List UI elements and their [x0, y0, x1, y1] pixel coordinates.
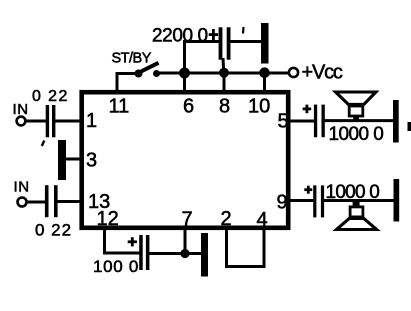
speaker LS1 box [349, 106, 363, 116]
wire ground to pin 3 [65, 158, 82, 161]
svg-text:3: 3 [86, 149, 97, 171]
wire Vcc rail [157, 72, 289, 75]
stray tick mark [242, 27, 245, 34]
capacitor C6 left plate [313, 185, 316, 217]
svg-text:6: 6 [183, 96, 194, 118]
wire C6 to speaker and ground [324, 199, 395, 202]
wire pin 8 stub [223, 73, 226, 92]
capacitor C2 right plate [52, 105, 55, 137]
terminal +Vcc [289, 68, 298, 77]
speaker LS1 cone [336, 92, 376, 104]
wire C4 to junction [149, 252, 201, 255]
svg-text:0 22: 0 22 [35, 221, 72, 240]
polarity plus of C5 [303, 105, 312, 114]
svg-text:4: 4 [257, 209, 268, 231]
wire C1 row left [183, 40, 219, 43]
stray apostrophe mark [42, 141, 45, 147]
ground bar bottom [201, 233, 208, 277]
svg-text:11: 11 [109, 96, 130, 118]
svg-text:100 0: 100 0 [93, 257, 139, 276]
terminal input upper [17, 117, 26, 126]
capacitor C4 left plate [139, 235, 143, 270]
speaker LS2 cone [337, 218, 377, 229]
capacitor C5 left plate [314, 105, 317, 138]
svg-text:2200 0: 2200 0 [152, 25, 208, 46]
speaker LS1 nub [353, 117, 359, 121]
svg-text:10: 10 [248, 96, 270, 118]
wire pin 11 stub [117, 74, 137, 91]
svg-text:9: 9 [277, 192, 288, 214]
capacitor C1 right plate [227, 27, 231, 59]
terminal input lower [18, 198, 27, 207]
ground bar right upper [393, 100, 399, 143]
ground bar right lower [394, 179, 400, 222]
svg-text:5: 5 [278, 110, 289, 132]
svg-text:12: 12 [97, 208, 119, 230]
capacitor C5 right plate [322, 105, 325, 138]
wire pin 12 elbow [105, 228, 141, 253]
capacitor C1 2200uF left plate [219, 27, 223, 59]
polarity plus of C4 [128, 237, 137, 246]
stray edge mark [408, 122, 411, 131]
op-amp IC U1 body [82, 92, 289, 228]
capacitor C3 right plate [54, 185, 58, 217]
svg-text:7: 7 [182, 209, 193, 231]
svg-text:1000 0: 1000 0 [329, 124, 384, 145]
svg-text:1000 0: 1000 0 [326, 182, 380, 203]
switch SW1 ST/BY left contact [135, 70, 143, 78]
svg-text:IN: IN [14, 179, 30, 196]
capacitor C3 left plate [45, 185, 49, 217]
ground bar top [261, 23, 269, 64]
wire pin 10 stub [263, 73, 266, 92]
wire input lower to C3 [27, 201, 46, 204]
wire pin 7 stub [184, 228, 187, 254]
node junction pin 6 [179, 68, 190, 79]
node junction pin 10 [259, 67, 270, 78]
svg-text:ST/BY: ST/BY [112, 50, 152, 66]
wire C5 to speaker and ground [325, 119, 395, 122]
ground bar left [58, 140, 66, 180]
svg-text:2: 2 [221, 208, 232, 230]
wire pin 2 to pin 4 jumper [227, 228, 265, 267]
speaker LS2 nub [353, 202, 360, 206]
wire input upper to C2 [26, 120, 47, 123]
polarity plus of C1 [209, 29, 218, 40]
node junction pin 7 [180, 249, 189, 258]
node junction pin 8 [219, 68, 229, 78]
capacitor C2 left plate [46, 105, 49, 137]
polarity plus of C6 [304, 186, 312, 194]
wire C1 left plate to pin 8 node [222, 58, 226, 72]
wire pin 5 out [288, 120, 315, 123]
switch SW1 right contact [153, 70, 160, 77]
wire riser to C1 row [183, 42, 186, 74]
wire pin 6 stub [183, 73, 186, 92]
capacitor C6 right plate [321, 185, 324, 217]
svg-text:8: 8 [219, 96, 230, 118]
wire C2 to pin 1 [55, 120, 82, 123]
speaker LS2 box [350, 207, 363, 217]
wire pin 9 out [288, 199, 314, 202]
wire C3 to pin 13 [57, 200, 82, 203]
svg-text:1: 1 [86, 110, 97, 132]
switch SW1 lever [138, 63, 159, 73]
svg-text:0 22: 0 22 [32, 88, 69, 105]
capacitor C4 right plate [146, 235, 150, 270]
svg-text:+Vcc: +Vcc [302, 62, 343, 84]
wire C1 right plate to ground [230, 40, 262, 43]
